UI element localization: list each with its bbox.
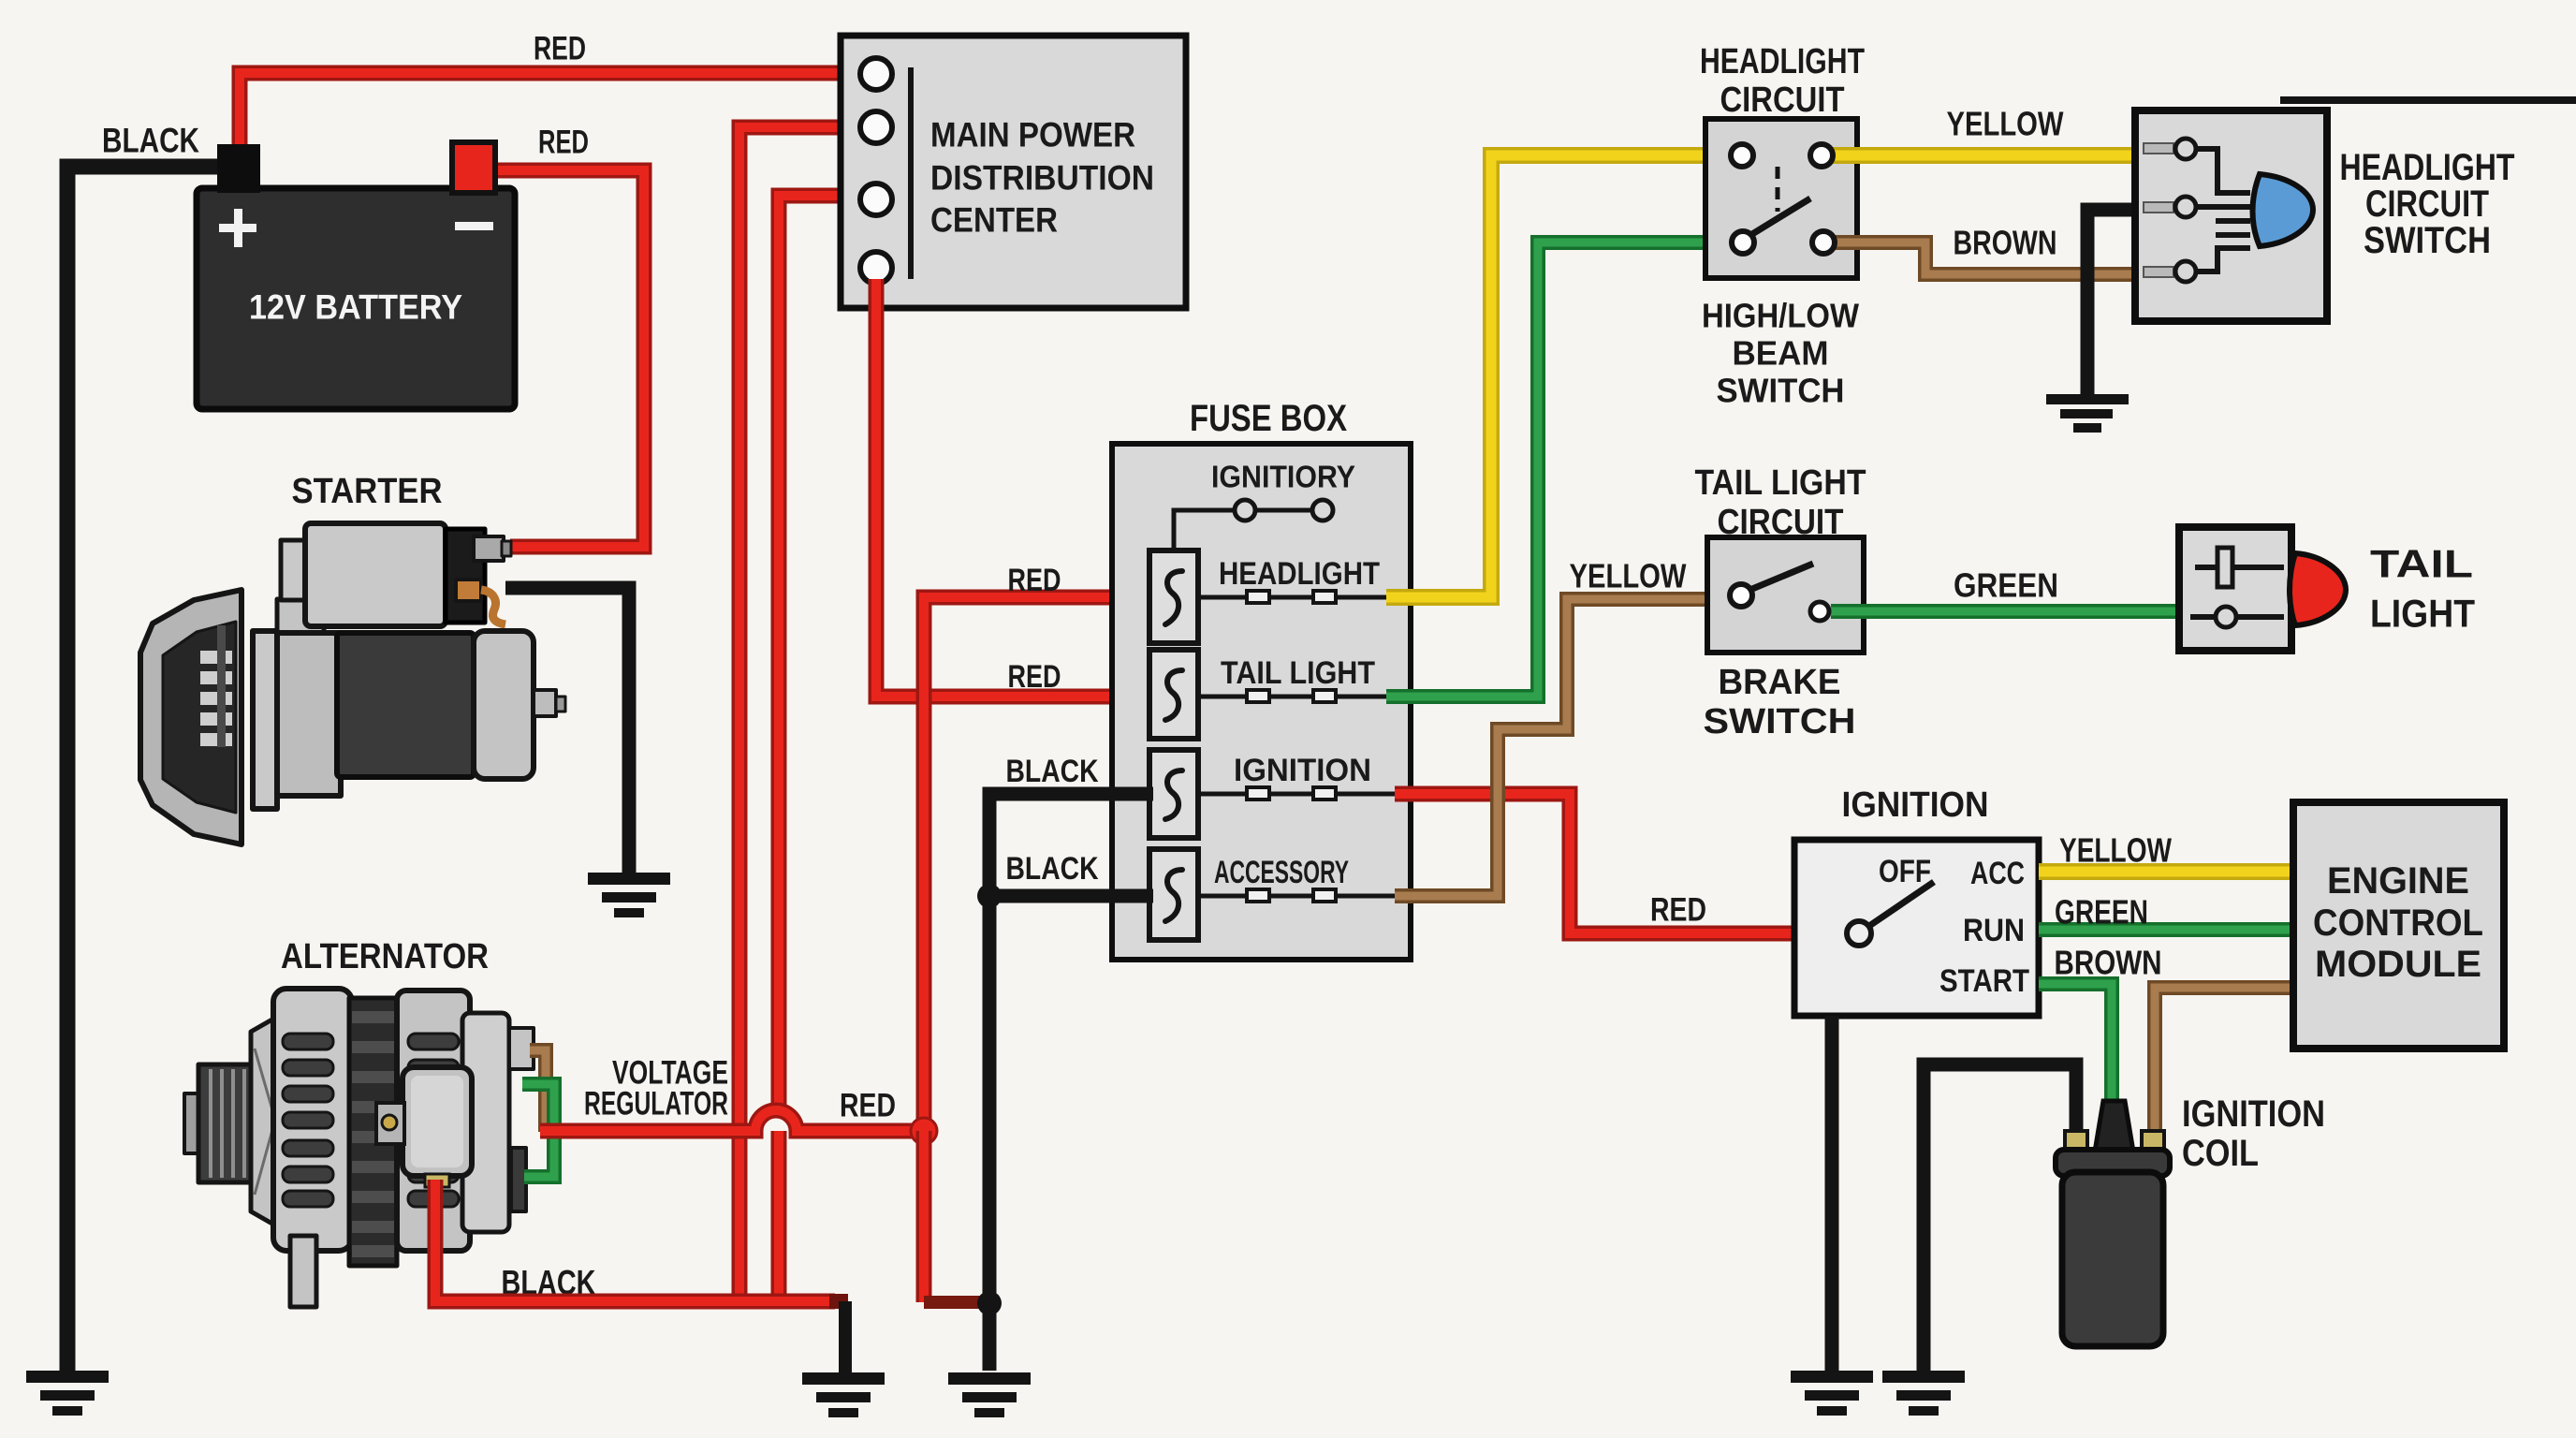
svg-text:HEADLIGHT: HEADLIGHT [1219, 556, 1380, 592]
wire black stub to ground below red bottom wire [839, 1301, 852, 1372]
svg-text:STARTER: STARTER [292, 472, 443, 511]
MPDC terminal pins [860, 58, 892, 90]
svg-text:IGNITION: IGNITION [1234, 753, 1371, 788]
wire BLACK fuse accessory row [989, 889, 1153, 903]
svg-text:REGULATOR: REGULATOR [584, 1086, 728, 1123]
wire RED fuse headlight row to lower junction [924, 597, 1153, 1131]
fuse IGNITION [1149, 750, 1395, 838]
wire battery negative BLACK to ground [67, 167, 225, 1371]
wire BLACK ignition switch to ground [1825, 1016, 1839, 1371]
tail light [2179, 527, 2346, 651]
engine control module [2293, 802, 2504, 1049]
ignitiory link wire [1174, 510, 1312, 550]
wire RED MPDC terminal 3 down to lower junction [779, 196, 869, 1303]
ground G7 coil [1882, 1371, 1965, 1416]
svg-text:FUSE BOX: FUSE BOX [1190, 398, 1347, 439]
svg-text:SWITCH: SWITCH [2364, 220, 2491, 261]
wire RED fuse ignition row to ignition switch [1395, 794, 1799, 933]
ground G5 headlight switch [2046, 394, 2129, 433]
svg-text:SWITCH: SWITCH [1704, 702, 1856, 741]
wire GREEN ignition START to ignition coil [2039, 984, 2112, 1103]
svg-text:BLACK: BLACK [102, 122, 199, 160]
wire BROWN fuse accessory row to brake switch [1395, 599, 1732, 896]
ground G1 battery [26, 1371, 109, 1416]
ground G2 starter [588, 873, 670, 917]
brake switch [1707, 537, 1864, 653]
wire GREEN alternator to regulator node [522, 1084, 554, 1177]
svg-text:12V BATTERY: 12V BATTERY [249, 288, 462, 327]
svg-text:RUN: RUN [1963, 913, 2025, 948]
alternator [184, 989, 534, 1307]
wire RED regulator down and across bottom [435, 1180, 835, 1301]
svg-text:START: START [1939, 963, 2029, 999]
svg-text:ALTERNATOR: ALTERNATOR [281, 937, 489, 976]
battery 12V [197, 142, 515, 409]
svg-text:YELLOW: YELLOW [2059, 831, 2172, 870]
wire BLACK headlight switch to ground [2087, 210, 2138, 396]
wire RED MPDC terminal 2 down to lower junction [739, 127, 869, 1303]
svg-text:TAIL LIGHT: TAIL LIGHT [1695, 463, 1866, 503]
wire RED junction down to chassis node [916, 1131, 932, 1302]
wire RED alternator regulator output to junction (hop over vertical) [755, 1110, 797, 1131]
svg-text:HEADLIGHT: HEADLIGHT [1700, 42, 1865, 81]
svg-text:CENTER: CENTER [930, 201, 1058, 240]
wire YELLOW fuse headlight row to high/low beam switch [1386, 155, 1734, 597]
svg-text:IGNITION: IGNITION [1842, 785, 1989, 825]
svg-text:BEAM: BEAM [1733, 334, 1829, 373]
svg-text:HIGH/LOW: HIGH/LOW [1702, 297, 1859, 335]
svg-text:RED: RED [538, 125, 589, 161]
svg-text:RED: RED [1008, 659, 1061, 695]
svg-text:RED: RED [840, 1088, 896, 1124]
svg-text:ENGINE: ENGINE [2327, 860, 2469, 902]
svg-text:CIRCUIT: CIRCUIT [2365, 183, 2489, 225]
svg-text:MAIN POWER: MAIN POWER [930, 116, 1135, 154]
svg-text:GREEN: GREEN [2055, 893, 2148, 932]
wire BLACK starter to ground [505, 588, 629, 873]
wire BROWN ECM to ignition coil [2155, 988, 2295, 1137]
headlight circuit switch [2135, 110, 2327, 321]
svg-text:RED: RED [1650, 892, 1706, 929]
wire GREEN fuse tail light row to high/low beam switch [1386, 242, 1734, 697]
svg-text:LIGHT: LIGHT [2370, 592, 2475, 636]
wire GREEN ignition RUN to ECM [2039, 922, 2295, 937]
high/low switch terminals and lever [1731, 144, 1835, 254]
svg-text:HEADLIGHT: HEADLIGHT [2340, 147, 2515, 188]
svg-text:ACC: ACC [1970, 856, 2025, 891]
fuse box [1112, 444, 1411, 960]
svg-text:TAIL: TAIL [2370, 542, 2473, 586]
svg-text:CIRCUIT: CIRCUIT [1720, 81, 1845, 120]
wire RED MPDC terminal 4 to fuse box tail light row [876, 279, 1153, 697]
fuse HEADLIGHT [1149, 550, 1395, 643]
svg-text:DISTRIBUTION: DISTRIBUTION [930, 159, 1154, 198]
svg-text:ACCESSORY: ACCESSORY [1214, 855, 1349, 890]
ground G3 charging [802, 1372, 885, 1417]
voltage regulator on alternator [376, 1067, 472, 1187]
tail light lamp (red) [2290, 553, 2346, 625]
ignition coil [2056, 1101, 2170, 1346]
junction node black accessory [977, 884, 1002, 908]
svg-text:TAIL LIGHT: TAIL LIGHT [1221, 655, 1375, 691]
svg-text:GREEN: GREEN [1954, 566, 2058, 605]
svg-text:BLACK: BLACK [1006, 754, 1099, 789]
ground G4 fuse ground bus [948, 1372, 1031, 1417]
ignition switch [1794, 840, 2039, 1016]
main power distribution center [841, 36, 1186, 308]
svg-text:BRAKE: BRAKE [1719, 663, 1841, 702]
wire YELLOW ignition ACC to ECM [2039, 863, 2295, 880]
ground G6 ignition switch [1791, 1371, 1873, 1416]
svg-text:RED: RED [1008, 563, 1061, 598]
svg-text:MODULE: MODULE [2315, 944, 2481, 985]
svg-text:CONTROL: CONTROL [2313, 902, 2483, 944]
svg-text:YELLOW: YELLOW [1947, 105, 2064, 143]
wire BROWN high/low switch to headlight circuit switch [1833, 242, 2138, 274]
svg-text:RED: RED [534, 31, 586, 67]
high/low beam switch [1705, 119, 1857, 278]
wire BLACK ignition coil to ground [1924, 1064, 2076, 1371]
wire BLACK fuse ignition row to ground bus [989, 794, 1153, 1371]
headlight lamp (blue) [2253, 174, 2314, 246]
wire GREEN brake switch to tail light [1831, 604, 2181, 619]
svg-text:BLACK: BLACK [1006, 851, 1099, 887]
svg-text:IGNITION: IGNITION [2182, 1093, 2325, 1135]
svg-text:IGNITIORY: IGNITIORY [1211, 460, 1355, 494]
svg-text:YELLOW: YELLOW [1570, 557, 1687, 595]
svg-text:SWITCH: SWITCH [1717, 372, 1845, 410]
junction node black chassis [977, 1291, 1002, 1315]
fuse ACCESSORY [1149, 849, 1395, 940]
wire BROWN alternator to regulator node [530, 1050, 546, 1132]
junction node RED [911, 1118, 937, 1144]
svg-text:OFF: OFF [1879, 854, 1931, 889]
wire YELLOW high/low switch to headlight circuit switch [1831, 147, 2138, 164]
brake switch terminals and lever [1730, 564, 1829, 621]
wire RED battery to starter solenoid [490, 170, 644, 547]
fuse TAIL LIGHT [1149, 650, 1395, 739]
svg-text:BROWN: BROWN [1954, 224, 2057, 262]
starter motor [140, 523, 565, 844]
wire RED battery positive to MPDC terminal 1 [240, 73, 869, 150]
svg-text:BROWN: BROWN [2055, 944, 2162, 982]
svg-text:COIL: COIL [2182, 1133, 2259, 1174]
